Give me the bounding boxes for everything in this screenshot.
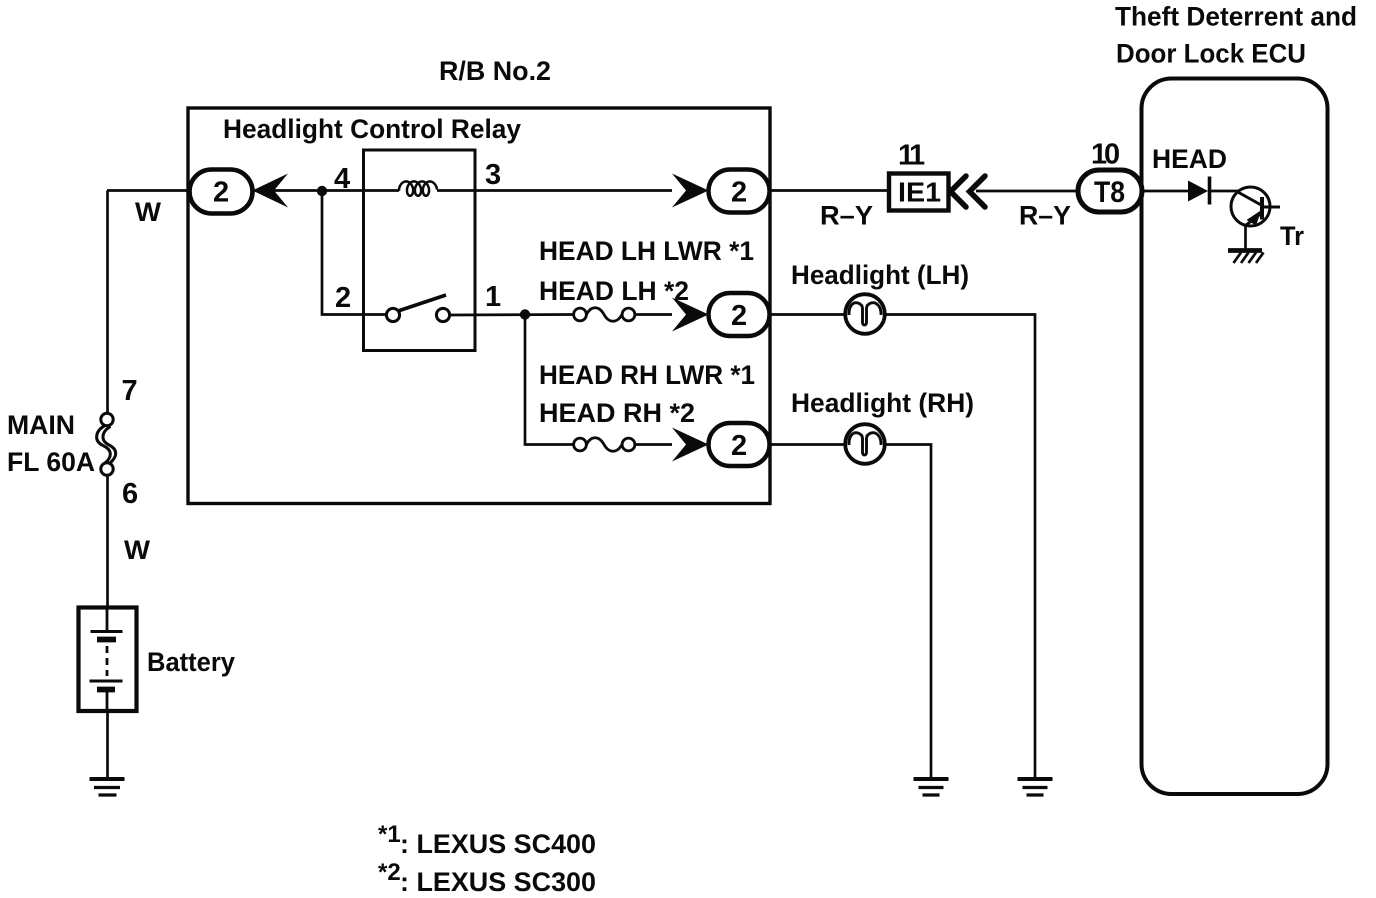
bulb Headlight RH bbox=[845, 424, 885, 464]
R/B No.2 box bbox=[188, 108, 770, 504]
wire row C to bulb bbox=[769, 443, 845, 446]
svg-text:HEAD RH *2: HEAD RH *2 bbox=[539, 398, 695, 428]
svg-text:R/B No.2: R/B No.2 bbox=[439, 56, 551, 86]
wire row A right of coil bbox=[437, 189, 672, 192]
fuse HEAD RH: element bbox=[587, 438, 623, 452]
node dot at terminal 4 bbox=[317, 186, 327, 196]
fuse HEAD LH: left terminal bbox=[574, 308, 587, 321]
wire diode to transistor bbox=[1210, 190, 1240, 193]
arrow right (row A) bbox=[672, 174, 709, 208]
svg-text:: LEXUS SC300: : LEXUS SC300 bbox=[400, 867, 596, 897]
ground (RH return) bbox=[914, 779, 949, 795]
wire link to battery bbox=[106, 475, 109, 608]
svg-text:W: W bbox=[135, 197, 162, 227]
arrow right (row B) bbox=[672, 298, 709, 332]
svg-text:FL 60A: FL 60A bbox=[7, 447, 95, 477]
svg-text:Headlight Control Relay: Headlight Control Relay bbox=[223, 114, 521, 144]
svg-text:Tr: Tr bbox=[1280, 221, 1304, 251]
ground (LH return) bbox=[1018, 779, 1053, 795]
svg-text:MAIN: MAIN bbox=[7, 410, 75, 440]
relay coil bbox=[399, 181, 437, 195]
arrow left (row A) bbox=[253, 174, 289, 208]
fuse HEAD LH: right terminal bbox=[622, 308, 635, 321]
wire row A horizontal left outside box bbox=[107, 189, 191, 192]
bulb Headlight LH bbox=[845, 294, 885, 334]
wire row B to bulb bbox=[769, 313, 845, 316]
svg-text:*2: *2 bbox=[378, 859, 401, 886]
fuse HEAD RH: left terminal bbox=[574, 438, 587, 451]
fuse HEAD RH: right terminal bbox=[622, 438, 635, 451]
svg-text:1: 1 bbox=[909, 140, 925, 172]
svg-text:Headlight (RH): Headlight (RH) bbox=[791, 388, 974, 418]
svg-text:HEAD LH *2: HEAD LH *2 bbox=[539, 276, 689, 306]
wire left vertical top segment bbox=[106, 191, 109, 414]
junction dot bbox=[520, 309, 530, 319]
svg-text:2: 2 bbox=[213, 177, 229, 209]
svg-text:HEAD RH LWR *1: HEAD RH LWR *1 bbox=[539, 360, 755, 390]
wire junction down to row C bbox=[525, 315, 574, 445]
svg-text:Headlight (LH): Headlight (LH) bbox=[791, 260, 969, 290]
svg-text:7: 7 bbox=[122, 375, 138, 407]
svg-text:W: W bbox=[124, 535, 151, 565]
wire row C fuse to arrow bbox=[635, 443, 672, 446]
connector oval 2 (row A right) bbox=[709, 170, 770, 213]
svg-text:HEAD: HEAD bbox=[1152, 144, 1227, 174]
wire row A main bbox=[252, 189, 399, 192]
wire from node down to relay terminal 2 bbox=[322, 191, 387, 315]
wire T8 to diode bbox=[1142, 190, 1188, 193]
svg-text:IE1: IE1 bbox=[898, 177, 941, 208]
wire row B from switch to junction bbox=[450, 313, 574, 316]
wire row B fuse to arrow bbox=[635, 313, 672, 316]
svg-text:Battery: Battery bbox=[147, 647, 235, 677]
svg-text:0: 0 bbox=[1104, 139, 1120, 171]
svg-text:Theft Deterrent and: Theft Deterrent and bbox=[1115, 2, 1357, 32]
chevron 2 bbox=[970, 176, 986, 207]
svg-text:*1: *1 bbox=[378, 821, 401, 848]
wire transistor emitter down bbox=[1244, 224, 1247, 249]
wire chevrons to T8 bbox=[976, 190, 1078, 193]
connector oval 2 (row C) bbox=[709, 423, 770, 466]
wire row A box edge to IE1 bbox=[769, 189, 889, 192]
ground (transistor, hatched) bbox=[1228, 251, 1264, 264]
svg-text:2: 2 bbox=[731, 430, 747, 462]
diode bbox=[1188, 181, 1208, 202]
transistor Tr bbox=[1231, 187, 1280, 226]
ground (battery) bbox=[90, 779, 125, 795]
svg-text:R–Y: R–Y bbox=[1019, 201, 1071, 231]
svg-text:3: 3 bbox=[485, 159, 501, 191]
svg-text:2: 2 bbox=[335, 282, 351, 314]
svg-text:T8: T8 bbox=[1094, 176, 1125, 209]
relay switch contact left bbox=[386, 308, 399, 321]
svg-text:1: 1 bbox=[485, 281, 501, 313]
svg-text:HEAD LH LWR *1: HEAD LH LWR *1 bbox=[539, 236, 754, 266]
relay switch contact right bbox=[436, 308, 449, 321]
svg-text:4: 4 bbox=[334, 163, 350, 195]
relay switch blade bbox=[398, 295, 446, 311]
fuse HEAD LH: element bbox=[587, 308, 623, 322]
connector IE1 box bbox=[889, 174, 949, 211]
arrow right (row C) bbox=[672, 428, 709, 462]
Theft Deterrent ECU box bbox=[1142, 79, 1328, 795]
wire battery to ground bbox=[106, 711, 109, 777]
battery bbox=[79, 608, 137, 712]
wire row C bulb to down bbox=[885, 445, 931, 778]
fusible link MAIN FL 60A bbox=[97, 413, 116, 475]
connector oval T8 bbox=[1078, 170, 1142, 212]
svg-text:2: 2 bbox=[731, 177, 747, 209]
svg-text:6: 6 bbox=[122, 478, 138, 510]
svg-text:2: 2 bbox=[731, 300, 747, 332]
wire row B bulb to down bbox=[885, 315, 1035, 778]
svg-text:Door Lock ECU: Door Lock ECU bbox=[1116, 39, 1306, 69]
svg-text:R–Y: R–Y bbox=[820, 201, 873, 231]
connector oval 2 (row A left) bbox=[190, 170, 253, 214]
svg-text:: LEXUS SC400: : LEXUS SC400 bbox=[400, 829, 596, 859]
relay box bbox=[364, 150, 476, 351]
chevron 1 bbox=[951, 176, 967, 207]
connector oval 2 (row B) bbox=[709, 293, 770, 336]
